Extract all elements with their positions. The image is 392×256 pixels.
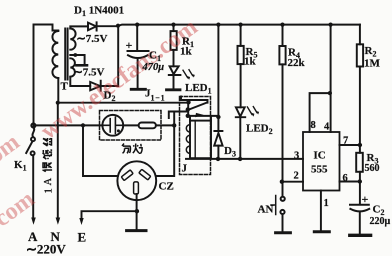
LED2 arrows (247, 107, 257, 115)
svg-text:1M: 1M (364, 58, 381, 70)
pushbutton AN actuator (271, 196, 276, 215)
label nai (neon) char1 (122, 144, 131, 154)
svg-text:220μ: 220μ (370, 216, 391, 227)
svg-text:560: 560 (365, 163, 380, 174)
terminal A arrowhead (31, 218, 36, 225)
svg-text:+: + (362, 192, 369, 206)
diode D2 (90, 81, 101, 91)
node: D3 bottom (216, 157, 220, 161)
wire: CZ right vertical (156, 112, 174, 177)
svg-text:C2: C2 (373, 204, 385, 218)
capacitor C2 220u plates (350, 205, 369, 212)
ground (C1) (131, 88, 145, 91)
svg-text:A: A (43, 178, 54, 186)
resistor R2 1M (357, 44, 363, 66)
switch K1 lever (26, 142, 32, 153)
ground (pin1) (314, 230, 329, 233)
svg-text:8: 8 (311, 120, 316, 131)
relay contact lever (189, 103, 207, 110)
svg-text:D3: D3 (224, 145, 236, 159)
wire: resistor to CZ-right node (156, 124, 174, 126)
svg-text:7: 7 (343, 136, 348, 147)
wire: pin2 (282, 181, 303, 183)
+V rail junction dots (56, 23, 333, 105)
IC 555 box (303, 132, 340, 191)
char xian (danger) (43, 150, 53, 160)
node: earth junction (135, 209, 139, 213)
LED1 arrows (183, 70, 193, 78)
wire: coil top stubs to +V wire (190, 116, 211, 121)
wire: AN to ground (282, 214, 284, 231)
svg-text:22k: 22k (288, 57, 306, 69)
wire: contact column (187, 102, 189, 116)
svg-text:LED2: LED2 (246, 123, 273, 137)
ballast resistor (pill) (139, 123, 156, 129)
char si (silk) (43, 138, 52, 146)
wire: contact arrow to coil +V node (188, 116, 219, 117)
socket CZ circle (117, 161, 156, 200)
svg-text:AN: AN (258, 204, 274, 216)
wire: down to socket CZ left (83, 125, 118, 176)
neon lamp dashed box (100, 111, 162, 141)
wire: LED2 to pin3 line (239, 118, 241, 159)
ground (center tap) (76, 64, 87, 67)
CJK glyph strokes (43, 138, 143, 194)
node: center tap (73, 53, 77, 57)
svg-text:1k: 1k (244, 56, 257, 68)
svg-text:∼220V: ∼220V (26, 242, 66, 256)
node: pin6 (358, 179, 362, 183)
node: socket left branch (81, 123, 85, 127)
svg-text:+: + (126, 38, 133, 52)
wire: C2 to ground (359, 212, 361, 233)
transformer T primary winding (52, 31, 58, 78)
contact arrowhead (195, 113, 203, 117)
svg-text:E: E (78, 230, 87, 245)
wire: pin7 (340, 144, 360, 146)
wire: neon to ballast resistor (123, 124, 138, 126)
pushbutton AN contacts (281, 197, 285, 201)
node: supply jog (328, 91, 332, 95)
svg-text:CZ: CZ (159, 181, 174, 193)
wire: K1 to terminal A (32, 155, 34, 217)
wire: live node down to switch K1 (31, 123, 35, 127)
svg-text:1: 1 (324, 198, 329, 209)
neon lamp electrodes (104, 117, 122, 133)
wire: earth E (82, 211, 137, 218)
resistor R4 22k lead (282, 25, 284, 46)
resistor R3 560 (356, 153, 363, 172)
wire: C1 to ground (137, 59, 139, 88)
wire: R4 to pin2 node (282, 64, 284, 196)
node: pin7 (358, 143, 362, 147)
wire: R2 to pin7 (359, 67, 361, 153)
node: CZ right / relay contact (172, 123, 176, 127)
watermark www.elecfans.com upper (0, 129, 25, 256)
wire: R5 to LED2 (240, 64, 242, 107)
ground (C2) (350, 234, 371, 237)
relay J1-1 dashed box (180, 97, 211, 175)
diode D1 1N4001 (88, 22, 97, 30)
fuse 1A (S link) (32, 128, 34, 137)
wire: D3 anode down (217, 146, 219, 159)
neon lamp circle (102, 115, 123, 136)
wire: secondary bottom to D2 (70, 77, 90, 86)
svg-text:1k: 1k (180, 46, 193, 58)
node: LED2 bottom (238, 157, 242, 161)
svg-text:3: 3 (294, 151, 299, 162)
resistor R1 1k (171, 31, 177, 50)
transformer T secondary winding (center tapped) (70, 29, 75, 77)
svg-text:IC: IC (314, 150, 326, 162)
transformer core (65, 29, 67, 80)
svg-text:J1−1: J1−1 (145, 88, 165, 103)
resistor R5 1k (238, 46, 244, 64)
svg-text:1: 1 (44, 188, 55, 193)
svg-text:6: 6 (343, 173, 348, 184)
char bao (protect) (43, 162, 53, 171)
svg-text:∼7.5V: ∼7.5V (74, 67, 105, 79)
svg-text:T: T (61, 81, 69, 93)
wire: secondary top to D1 (70, 26, 88, 28)
label deng (lamp) char2 (133, 144, 142, 154)
wire: primary bottom to N junction (57, 78, 59, 103)
pin number labels (294, 120, 349, 209)
socket CZ slots (121, 169, 150, 194)
label 1A fuse vertical text (43, 138, 55, 194)
wire: CZ bottom to ground (136, 194, 138, 229)
wire: live feed to neon lamp and socket (36, 124, 103, 126)
relay coil J (190, 121, 211, 159)
wire: 555 supply drop (310, 25, 331, 132)
wire: LED1 cathode to ground (173, 76, 175, 89)
svg-text:K1: K1 (14, 159, 27, 173)
wire: relay bottom / 555 pin3 line (186, 158, 303, 160)
wire: R1 to LED1 (173, 50, 175, 66)
wire: +V rail (118, 25, 360, 26)
diode D3 (214, 131, 222, 146)
resistor R1 1k lead from rail (173, 25, 175, 32)
svg-text:2: 2 (294, 171, 299, 182)
wire: pin1 to ground (320, 191, 322, 231)
neon lamp dot (117, 129, 120, 132)
wire: D1 cathode to +V rail node (97, 25, 118, 27)
wire: +V drop to relay (217, 25, 219, 131)
wire: R3 to pin6 node (359, 172, 361, 205)
svg-text:∼7.5V: ∼7.5V (77, 33, 108, 45)
node: pin2 (280, 180, 284, 184)
ground (LED1) (167, 88, 181, 91)
switch K1 contacts (31, 137, 35, 141)
svg-text:LED1: LED1 (185, 82, 212, 96)
resistor R5 1k lead (240, 25, 242, 46)
ground (AN) (276, 231, 291, 234)
relay contact fixed rail (181, 97, 208, 103)
watermark corner remnant (0, 186, 40, 256)
terminal E arrowhead (79, 218, 83, 225)
svg-text:470μ: 470μ (142, 62, 165, 73)
ground (CZ) (127, 229, 146, 232)
transformer center tap to ground (70, 55, 84, 64)
node: relay +V (216, 115, 220, 119)
node: transformer N junction (56, 101, 60, 105)
relay coil arcs (186, 125, 190, 154)
wire: mains live top wire to transformer primary (34, 25, 59, 126)
svg-text:555: 555 (311, 164, 328, 176)
svg-text:D1 1N4001: D1 1N4001 (74, 5, 124, 19)
svg-text:R2: R2 (365, 45, 377, 59)
svg-text:4: 4 (324, 122, 330, 133)
wire: pin6 (340, 181, 360, 183)
resistor R2 1M lead (359, 25, 361, 45)
capacitor C1 plates (128, 51, 149, 58)
LED2 (236, 107, 245, 117)
terminal N arrowhead (56, 218, 61, 225)
LED1 (169, 66, 181, 75)
relay contact dots (186, 100, 190, 104)
svg-text:J: J (182, 163, 188, 175)
capacitor C1 470u lead (136, 25, 138, 51)
resistor R4 22k (279, 46, 285, 64)
watermark www.elecfans.com lower (36, 14, 202, 145)
wire: contact feed horizontal (169, 112, 188, 119)
wire: D2 cathode up to +V rail node (101, 26, 119, 86)
wire: N neutral line from transformer to relay contact (58, 103, 189, 218)
